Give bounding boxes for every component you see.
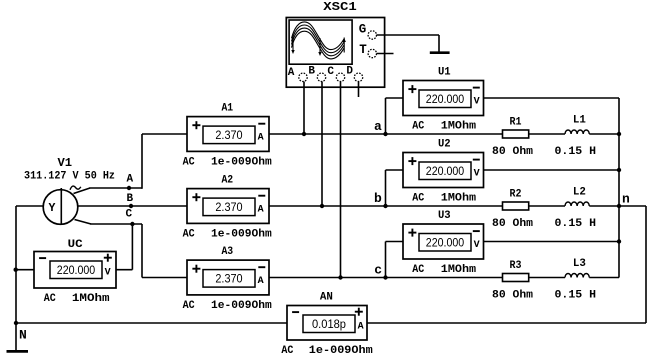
- node C junction: [130, 222, 134, 226]
- svg-text:A: A: [127, 174, 134, 186]
- svg-text:G: G: [359, 23, 367, 37]
- voltmeter U1: [403, 67, 484, 133]
- wire R1 to L1: [529, 133, 565, 135]
- svg-text:L1: L1: [573, 115, 586, 127]
- wire U1 plus riser: [385, 98, 387, 134]
- svg-text:B: B: [127, 193, 134, 205]
- svg-text:1MOhm: 1MOhm: [441, 264, 477, 276]
- junction N on rail: [14, 321, 18, 325]
- wire phase C dropper: [141, 224, 143, 278]
- ammeter A2: [183, 175, 272, 241]
- oscilloscope terminal B: [308, 66, 325, 82]
- svg-text:AC: AC: [412, 121, 424, 133]
- wire A1 out to R1: [269, 133, 503, 135]
- oscilloscope XSC1 body: [286, 18, 384, 88]
- wire right bus: [618, 98, 620, 278]
- junction scope ch c: [338, 275, 342, 279]
- oscilloscope terminal A: [288, 67, 307, 82]
- wire L3 to bus: [589, 277, 619, 279]
- voltmeter U2: [403, 139, 484, 205]
- junction bus U2: [617, 168, 621, 172]
- junction bus row a: [617, 132, 621, 136]
- wire scope ch D stub: [358, 82, 360, 98]
- svg-text:0.15 H: 0.15 H: [555, 290, 597, 302]
- svg-text:a: a: [374, 119, 382, 134]
- wire phase C horizontal: [90, 223, 142, 225]
- svg-text:D: D: [346, 66, 353, 78]
- svg-text:0.018p: 0.018p: [312, 317, 346, 331]
- wire A2 out to R2: [269, 205, 503, 207]
- svg-text:n: n: [622, 191, 630, 206]
- ammeter AN: [281, 292, 373, 358]
- svg-text:A: A: [358, 321, 364, 332]
- svg-text:R3: R3: [510, 260, 522, 272]
- wire R3 to L3: [529, 277, 565, 279]
- svg-text:A1: A1: [221, 103, 233, 115]
- svg-text:AC: AC: [281, 345, 293, 357]
- svg-text:V: V: [474, 240, 480, 251]
- svg-text:220.000: 220.000: [57, 263, 96, 277]
- svg-text:AC: AC: [183, 157, 195, 169]
- wire UC minus stub: [16, 269, 34, 271]
- node b junction: [383, 204, 387, 208]
- junction bus node n: [617, 204, 621, 208]
- oscilloscope terminal T: [359, 43, 376, 58]
- svg-text:0.15 H: 0.15 H: [555, 218, 597, 230]
- svg-text:V1: V1: [58, 156, 73, 170]
- svg-text:A2: A2: [221, 175, 233, 187]
- svg-text:UC: UC: [68, 239, 83, 251]
- svg-text:80 Ohm: 80 Ohm: [492, 146, 533, 158]
- svg-text:A: A: [258, 204, 264, 215]
- voltmeter U3: [403, 210, 484, 276]
- oscilloscope terminal D: [346, 66, 362, 82]
- wire ground lead: [438, 35, 440, 52]
- inductor L2: [565, 187, 589, 207]
- oscilloscope terminal C: [327, 66, 344, 82]
- svg-text:A: A: [258, 132, 264, 143]
- junction scope ch b: [320, 204, 324, 208]
- svg-text:220.000: 220.000: [426, 92, 465, 106]
- wire U2 minus to bus: [484, 169, 620, 171]
- wire n to right edge: [619, 205, 646, 207]
- svg-text:AC: AC: [412, 264, 424, 276]
- svg-text:V: V: [105, 267, 111, 278]
- svg-text:220.000: 220.000: [426, 164, 465, 178]
- wire U3 minus to bus: [484, 241, 620, 243]
- node a junction: [383, 132, 387, 136]
- svg-text:AC: AC: [183, 300, 195, 312]
- inductor L3: [565, 258, 589, 278]
- svg-text:80 Ohm: 80 Ohm: [492, 290, 533, 302]
- voltmeter UC: [34, 239, 116, 305]
- wire scope T stub: [377, 53, 394, 55]
- ammeter A1: [183, 103, 272, 169]
- wire A3 out to R3: [269, 277, 503, 279]
- svg-text:2.370: 2.370: [215, 272, 242, 286]
- svg-text:b: b: [374, 191, 382, 206]
- wire phase B row: [78, 205, 187, 207]
- wire AN out: [367, 322, 646, 324]
- ground bottom-left: [7, 350, 29, 353]
- wire UC plus horizontal: [116, 269, 132, 271]
- svg-text:311.127 V 50 Hz: 311.127 V 50 Hz: [24, 171, 115, 183]
- wire right neutral drop: [645, 206, 647, 323]
- svg-text:R1: R1: [510, 117, 522, 129]
- wire L1 to bus: [589, 133, 619, 135]
- svg-text:1MOhm: 1MOhm: [441, 193, 477, 205]
- wire U1 minus to bus: [484, 97, 620, 99]
- svg-text:Y: Y: [49, 202, 56, 215]
- wire phase C diagonal: [75, 220, 92, 225]
- wire U2 plus riser: [385, 170, 387, 206]
- wire scope G to ground: [377, 34, 440, 36]
- svg-text:U1: U1: [438, 67, 451, 79]
- svg-text:U2: U2: [438, 139, 451, 151]
- oscilloscope waveform traces: [292, 22, 345, 59]
- svg-text:C: C: [126, 209, 133, 221]
- wire scope ch C drop: [340, 82, 342, 278]
- svg-text:A3: A3: [221, 246, 233, 258]
- wire N row: [16, 322, 287, 324]
- svg-text:1e-009Ohm: 1e-009Ohm: [309, 345, 373, 357]
- svg-text:1e-009Ohm: 1e-009Ohm: [211, 229, 272, 241]
- wire phase A diagonal: [74, 188, 91, 194]
- wire U3 plus lead: [386, 241, 404, 243]
- wire R2 to L2: [529, 205, 565, 207]
- node c junction: [383, 275, 387, 279]
- ground top-right: [430, 51, 450, 54]
- resistor R1: [503, 117, 529, 139]
- wire scope ch B drop: [321, 82, 323, 207]
- ammeter A3: [183, 246, 272, 312]
- junction UC minus on rail: [14, 268, 18, 272]
- svg-text:220.000: 220.000: [426, 236, 465, 250]
- svg-text:XSC1: XSC1: [323, 0, 357, 14]
- junction scope ch a: [302, 132, 306, 136]
- svg-text:1e-009Ohm: 1e-009Ohm: [211, 300, 272, 312]
- svg-text:A: A: [258, 276, 264, 287]
- svg-text:0.15 H: 0.15 H: [555, 146, 597, 158]
- wire U3 plus riser: [385, 242, 387, 278]
- wire source neutral left: [16, 205, 43, 207]
- wire phase A horizontal: [89, 187, 142, 189]
- svg-text:1MOhm: 1MOhm: [441, 121, 477, 133]
- node B junction: [129, 204, 133, 208]
- svg-text:2.370: 2.370: [215, 200, 242, 214]
- wire L2 to bus: [589, 205, 619, 207]
- svg-text:A: A: [288, 67, 295, 79]
- svg-text:2.370: 2.370: [215, 128, 242, 142]
- svg-text:AN: AN: [320, 292, 333, 304]
- wire phase A riser: [141, 134, 143, 189]
- resistor R2: [503, 189, 529, 211]
- svg-text:R2: R2: [510, 189, 522, 201]
- svg-text:1e-009Ohm: 1e-009Ohm: [211, 157, 272, 169]
- svg-text:1MOhm: 1MOhm: [72, 293, 110, 305]
- junction bus U3: [617, 239, 621, 243]
- svg-text:V: V: [474, 168, 480, 179]
- svg-text:AC: AC: [183, 229, 195, 241]
- wire phase A to A1: [142, 133, 187, 135]
- resistor R3: [503, 260, 529, 282]
- wire phase C to A3: [142, 277, 187, 279]
- wire scope ch A drop: [303, 82, 305, 135]
- svg-text:U3: U3: [438, 210, 451, 222]
- svg-text:L2: L2: [573, 187, 586, 199]
- wire left neutral rail: [15, 206, 17, 350]
- svg-text:AC: AC: [412, 193, 424, 205]
- svg-text:L3: L3: [573, 258, 586, 270]
- wire UC plus riser: [131, 224, 133, 270]
- wire U1 plus lead: [386, 97, 404, 99]
- node A junction: [127, 186, 131, 190]
- oscilloscope terminal G: [359, 23, 377, 39]
- svg-text:B: B: [308, 66, 315, 78]
- svg-text:N: N: [19, 327, 27, 342]
- svg-text:c: c: [374, 262, 382, 277]
- svg-text:AC: AC: [44, 293, 56, 305]
- oscilloscope screen: [289, 20, 352, 64]
- svg-text:T: T: [359, 43, 367, 57]
- svg-text:C: C: [327, 66, 334, 78]
- inductor L1: [565, 115, 589, 135]
- svg-text:V: V: [474, 96, 480, 107]
- source V1 (three-phase wye): [43, 186, 81, 224]
- wire U2 plus lead: [386, 169, 404, 171]
- svg-text:80 Ohm: 80 Ohm: [492, 218, 533, 230]
